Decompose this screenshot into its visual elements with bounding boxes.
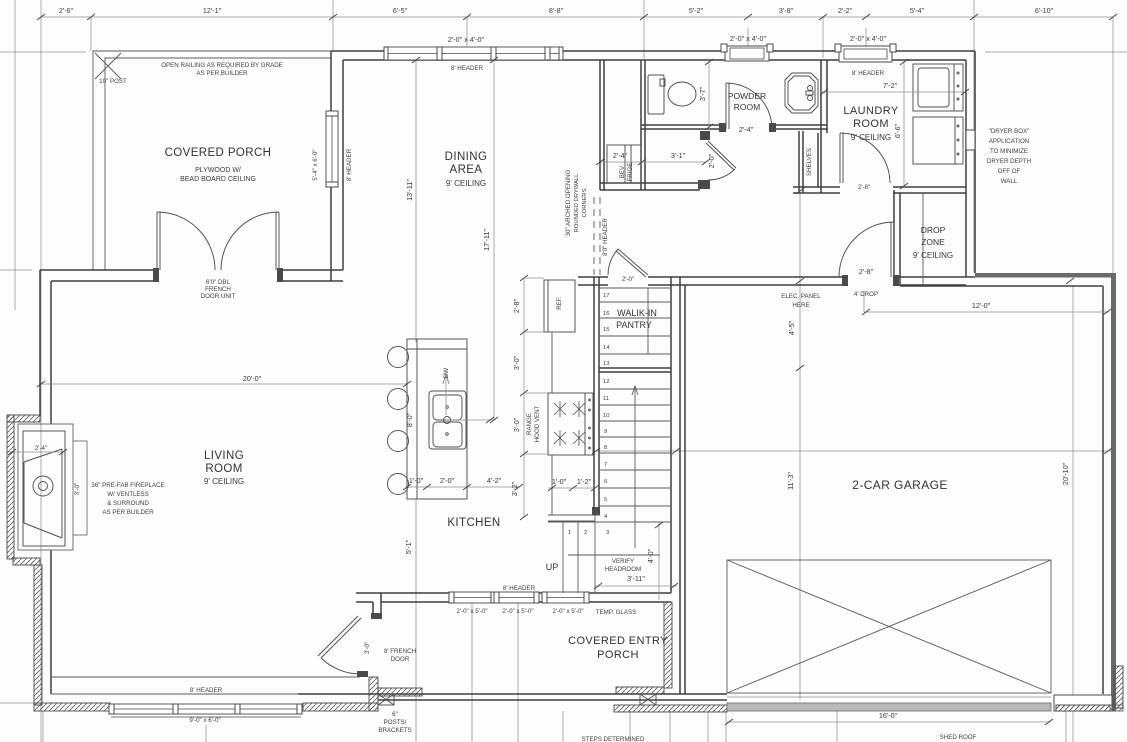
powder 3'-7" xyxy=(708,60,710,129)
svg-text:3'-1": 3'-1" xyxy=(671,151,686,160)
bev dims 2'-4" 3'-1" xyxy=(600,161,706,163)
svg-text:5'-1": 5'-1" xyxy=(404,539,413,554)
living south wall: hatched + window xyxy=(34,703,110,711)
svg-text:2'-0" x 4'-0": 2'-0" x 4'-0" xyxy=(730,34,767,43)
svg-text:5'-2": 5'-2" xyxy=(689,6,704,15)
svg-text:DW: DW xyxy=(443,368,450,378)
window size labels row 2 xyxy=(448,34,887,44)
svg-text:W/ VENTLESS: W/ VENTLESS xyxy=(107,491,149,498)
svg-text:8' HEADER: 8' HEADER xyxy=(346,148,353,181)
laundry north window xyxy=(835,44,896,62)
stair up arrow xyxy=(632,386,638,548)
porch west window 5'-4" x 6'-0" xyxy=(326,111,338,187)
refrigerator xyxy=(544,280,575,332)
svg-text:2'-0": 2'-0" xyxy=(622,276,634,283)
bev fridge nook walls xyxy=(600,60,645,190)
svg-text:3'-11": 3'-11" xyxy=(627,574,645,583)
pantry door xyxy=(608,249,648,277)
svg-text:6": 6" xyxy=(392,711,398,718)
svg-text:12'-0": 12'-0" xyxy=(972,301,991,310)
laundry 6'-6" xyxy=(903,60,905,188)
svg-text:DOOR UNIT: DOOR UNIT xyxy=(201,293,236,300)
svg-text:36" PRE-FAB FIREPLACE: 36" PRE-FAB FIREPLACE xyxy=(91,482,164,489)
svg-text:VERIFY: VERIFY xyxy=(612,558,634,565)
svg-text:14: 14 xyxy=(603,345,610,351)
powder room west wall xyxy=(641,60,645,129)
svg-text:4'-0": 4'-0" xyxy=(646,548,655,563)
porch south wall west segment with french door jambs xyxy=(40,270,343,281)
svg-text:17: 17 xyxy=(603,293,609,299)
garage west wall xyxy=(680,277,685,694)
svg-text:2'-6": 2'-6" xyxy=(59,6,74,15)
svg-text:ROOM: ROOM xyxy=(734,102,760,112)
range xyxy=(548,393,593,455)
living west wall upper xyxy=(40,270,51,424)
kitchen counter return below range xyxy=(548,515,600,521)
svg-text:ROOM: ROOM xyxy=(205,463,242,475)
stair treads upper (pantry) xyxy=(599,288,671,354)
powder room north window xyxy=(721,44,773,61)
svg-text:6'-5": 6'-5" xyxy=(393,6,408,15)
svg-text:TEMP. GLASS: TEMP. GLASS xyxy=(596,609,636,616)
island dims xyxy=(407,486,519,488)
svg-text:2'-0" x 5'-0": 2'-0" x 5'-0" xyxy=(456,608,487,615)
porch/garage south band xyxy=(298,694,727,700)
svg-text:COVERED PORCH: COVERED PORCH xyxy=(165,147,272,159)
svg-text:3'-8": 3'-8" xyxy=(779,6,794,15)
fireplace alcove xyxy=(18,424,87,550)
svg-text:5'-4" x 6'-0": 5'-4" x 6'-0" xyxy=(312,149,319,180)
svg-text:30" ARCHED OPENING: 30" ARCHED OPENING xyxy=(565,169,572,236)
svg-text:2'-4": 2'-4" xyxy=(35,445,47,452)
svg-text:6: 6 xyxy=(604,479,607,485)
svg-text:3'-0": 3'-0" xyxy=(512,417,521,432)
laundry door xyxy=(840,133,890,183)
svg-text:RANGE: RANGE xyxy=(526,413,533,435)
svg-text:PANTRY: PANTRY xyxy=(616,320,652,330)
svg-text:FRIGE: FRIGE xyxy=(627,163,634,182)
svg-text:3'-0": 3'-0" xyxy=(74,483,81,495)
garage inner wall lines xyxy=(900,286,1103,694)
svg-text:LAUNDRY: LAUNDRY xyxy=(843,105,898,117)
svg-text:CORNERS: CORNERS xyxy=(582,188,588,217)
svg-text:2: 2 xyxy=(584,530,587,536)
svg-text:9: 9 xyxy=(604,429,607,435)
svg-text:SHED ROOF: SHED ROOF xyxy=(940,734,977,741)
svg-text:ROOM: ROOM xyxy=(853,118,889,130)
12'-0" xyxy=(864,290,1109,312)
winder steps xyxy=(548,515,660,593)
svg-text:2'-0" x 4'-0": 2'-0" x 4'-0" xyxy=(448,35,485,44)
svg-text:8'0" HEADER: 8'0" HEADER xyxy=(602,218,609,256)
stair treads lower run xyxy=(595,389,671,522)
svg-text:STEPS DETERMINED: STEPS DETERMINED xyxy=(582,736,645,742)
pantry/stair divider wall xyxy=(599,368,671,372)
hall south wall / garage NW wall xyxy=(648,277,975,285)
garage door right jamb xyxy=(1054,695,1112,711)
svg-text:HEADROOM: HEADROOM xyxy=(605,566,641,573)
svg-text:5: 5 xyxy=(604,497,607,503)
stair block east wall xyxy=(670,277,672,593)
svg-text:2'-8": 2'-8" xyxy=(859,267,874,276)
dining west wall (porch east) xyxy=(331,51,343,281)
svg-text:DRYER DEPTH: DRYER DEPTH xyxy=(987,158,1031,165)
svg-text:AS PER BUILDER: AS PER BUILDER xyxy=(196,70,248,77)
powder room south wall xyxy=(641,125,827,129)
17'-11" xyxy=(490,57,498,63)
bev fridge xyxy=(607,145,641,183)
kitchen south windows xyxy=(449,592,589,603)
svg-text:7'-2": 7'-2" xyxy=(883,81,898,90)
svg-text:8'-0": 8'-0" xyxy=(405,412,414,427)
dimension ticks top chain xyxy=(37,14,1117,20)
svg-text:6'0" DBL: 6'0" DBL xyxy=(206,279,231,286)
svg-text:6'-6": 6'-6" xyxy=(893,123,902,138)
svg-text:12: 12 xyxy=(603,379,609,385)
svg-text:8' HEADER: 8' HEADER xyxy=(503,585,536,592)
north exterior wall xyxy=(331,51,975,60)
svg-text:"DRYER BOX": "DRYER BOX" xyxy=(989,128,1030,135)
svg-text:2'-4": 2'-4" xyxy=(739,125,754,134)
stair block west wall xyxy=(594,277,599,515)
svg-text:SHELVES: SHELVES xyxy=(806,148,813,176)
svg-text:8'-8": 8'-8" xyxy=(549,6,564,15)
svg-text:2-CAR GARAGE: 2-CAR GARAGE xyxy=(852,478,948,492)
svg-text:PLYWOOD W/: PLYWOOD W/ xyxy=(195,167,241,174)
covered porch railing outer xyxy=(93,51,331,270)
island sink xyxy=(429,391,466,449)
entry porch east hatched wall xyxy=(664,602,672,688)
bev hall angled door xyxy=(706,141,736,180)
washer xyxy=(913,64,963,111)
laundry 7'-2" xyxy=(822,91,967,93)
svg-text:REF.: REF. xyxy=(556,296,563,310)
svg-text:1'-0": 1'-0" xyxy=(409,476,424,485)
porch corner post X xyxy=(95,53,121,79)
svg-text:WALL: WALL xyxy=(1001,178,1018,185)
svg-text:WALIK-IN: WALIK-IN xyxy=(617,308,657,318)
1'-0" 1'-2" below range xyxy=(548,487,595,489)
kitchen island xyxy=(407,339,467,499)
13'-11" xyxy=(412,57,420,63)
svg-text:8' HEADER: 8' HEADER xyxy=(852,70,885,77)
svg-text:8' HEADER: 8' HEADER xyxy=(190,687,223,694)
svg-text:HOOD VENT: HOOD VENT xyxy=(534,405,541,442)
svg-text:12'-1": 12'-1" xyxy=(203,6,222,15)
garage cross ticks xyxy=(672,448,680,454)
dryer xyxy=(913,117,963,164)
svg-text:BEV: BEV xyxy=(619,165,626,178)
drop zone door xyxy=(839,222,894,277)
living south window 9'-0" x 6'-0" xyxy=(109,704,302,717)
svg-text:6'-10": 6'-10" xyxy=(1035,6,1054,15)
svg-text:ELEC. PANEL: ELEC. PANEL xyxy=(781,293,821,300)
svg-text:2'-2": 2'-2" xyxy=(838,6,853,15)
svg-text:APPLICATION: APPLICATION xyxy=(989,138,1029,145)
bar stools xyxy=(379,342,409,499)
svg-text:POWDER: POWDER xyxy=(728,91,766,101)
svg-text:2'-4": 2'-4" xyxy=(613,151,628,160)
svg-text:9'-0" x 6'-0": 9'-0" x 6'-0" xyxy=(189,717,220,724)
svg-text:BEAD BOARD CEILING: BEAD BOARD CEILING xyxy=(180,176,256,183)
svg-text:4' DROP: 4' DROP xyxy=(854,291,878,298)
fireplace dim 2'-4" xyxy=(9,451,66,453)
svg-text:11: 11 xyxy=(603,396,609,402)
svg-text:& SURROUND: & SURROUND xyxy=(107,500,149,507)
entry porch west hatched wall xyxy=(369,677,378,711)
svg-text:TO MINIMIZE: TO MINIMIZE xyxy=(990,148,1028,155)
svg-text:2'-0": 2'-0" xyxy=(440,476,455,485)
drop zone divider xyxy=(922,193,924,285)
svg-text:4'-2": 4'-2" xyxy=(487,476,502,485)
svg-text:PORCH: PORCH xyxy=(597,649,639,661)
svg-text:LIVING: LIVING xyxy=(204,450,244,462)
svg-text:BRACKETS: BRACKETS xyxy=(378,727,411,734)
svg-text:3'-2": 3'-2" xyxy=(510,481,519,496)
powder/laundry shared wall xyxy=(821,60,827,133)
drop zone west wall xyxy=(894,190,900,285)
svg-text:DINING: DINING xyxy=(445,151,488,163)
kitchen counter edges xyxy=(544,280,552,515)
16'-0" garage door xyxy=(727,721,1051,723)
svg-text:9' CEILING: 9' CEILING xyxy=(913,251,953,260)
svg-text:5'-4": 5'-4" xyxy=(910,6,925,15)
svg-text:3: 3 xyxy=(606,530,609,536)
svg-text:10" POST: 10" POST xyxy=(99,78,127,85)
4'-5" 11'-3" vertical at x=800 xyxy=(796,188,804,194)
svg-text:11'-3": 11'-3" xyxy=(786,472,795,490)
svg-text:AREA: AREA xyxy=(450,164,483,176)
svg-text:OPEN RAILING AS REQUIRED BY GR: OPEN RAILING AS REQUIRED BY GRADE xyxy=(161,62,283,69)
svg-text:20'-0": 20'-0" xyxy=(243,374,262,383)
bathtub xyxy=(785,73,818,113)
svg-text:2'-0" x 5'-0": 2'-0" x 5'-0" xyxy=(502,608,533,615)
entry porch posts xyxy=(378,694,656,705)
svg-text:16'-0": 16'-0" xyxy=(879,711,898,720)
garage east wall thick xyxy=(1111,273,1116,711)
svg-text:POSTS/: POSTS/ xyxy=(384,719,407,726)
svg-text:8' HEADER: 8' HEADER xyxy=(451,65,484,72)
svg-text:1'-2": 1'-2" xyxy=(577,477,592,486)
svg-text:20'-10": 20'-10" xyxy=(1061,462,1070,485)
svg-text:13: 13 xyxy=(603,361,609,367)
garage north wall thick xyxy=(975,273,1116,278)
svg-text:3'-0": 3'-0" xyxy=(512,355,521,370)
top dimension chain line xyxy=(41,16,1113,18)
laundry south wall xyxy=(793,187,966,193)
garage slab X box xyxy=(727,560,1051,693)
svg-text:2'-8": 2'-8" xyxy=(858,184,870,191)
dimension labels top chain xyxy=(59,6,1054,15)
svg-text:DOOR: DOOR xyxy=(391,656,410,663)
svg-text:2'-8": 2'-8" xyxy=(512,298,521,313)
sink center dim lines xyxy=(446,376,494,420)
shelves closet walls xyxy=(799,131,821,193)
garage door xyxy=(727,703,1051,711)
french door unit porch (double) xyxy=(157,212,279,270)
svg-text:17'-11": 17'-11" xyxy=(482,229,491,251)
svg-text:ZONE: ZONE xyxy=(921,237,945,247)
svg-text:HERE: HERE xyxy=(792,302,809,309)
stair numbers xyxy=(568,293,610,536)
dryer box recess on east wall xyxy=(966,130,975,150)
svg-text:1: 1 xyxy=(568,530,571,536)
svg-text:OFF OF: OFF OF xyxy=(998,168,1021,175)
svg-text:8: 8 xyxy=(604,445,607,451)
svg-text:AS PER BUILDER: AS PER BUILDER xyxy=(102,509,154,516)
svg-text:9' CEILING: 9' CEILING xyxy=(446,179,486,188)
svg-text:COVERED ENTRY: COVERED ENTRY xyxy=(568,635,668,647)
svg-text:9' CEILING: 9' CEILING xyxy=(851,133,891,142)
kitchen east bracket dims xyxy=(523,278,525,517)
french door living SE xyxy=(318,616,361,674)
svg-text:KITCHEN: KITCHEN xyxy=(447,517,500,529)
dining east arched opening dashed xyxy=(594,197,600,275)
svg-text:UP: UP xyxy=(546,562,559,572)
svg-text:ROUNDED DRYWALL: ROUNDED DRYWALL xyxy=(574,173,580,232)
svg-text:9' CEILING: 9' CEILING xyxy=(204,477,244,486)
svg-text:15: 15 xyxy=(603,327,609,333)
hall south wall (bev area) xyxy=(600,183,700,190)
svg-text:2'-0": 2'-0" xyxy=(707,153,716,168)
kitchen south wall xyxy=(381,593,671,602)
svg-text:8' FRENCH: 8' FRENCH xyxy=(384,648,416,655)
toilet xyxy=(648,75,696,114)
svg-text:4'-5": 4'-5" xyxy=(787,320,796,335)
svg-text:13'-11": 13'-11" xyxy=(405,179,414,201)
svg-text:FRENCH: FRENCH xyxy=(205,286,231,293)
svg-text:16: 16 xyxy=(603,311,609,317)
svg-text:2'-0" x 4'-0": 2'-0" x 4'-0" xyxy=(850,34,887,43)
fireplace bump hatched walls xyxy=(7,415,40,422)
svg-text:7: 7 xyxy=(604,462,607,468)
pantry north wall stub xyxy=(578,277,608,285)
svg-text:3'-7": 3'-7" xyxy=(698,86,707,101)
svg-text:10: 10 xyxy=(603,413,609,419)
svg-text:1'-0": 1'-0" xyxy=(552,477,567,486)
svg-text:2'-0" x 5'-0": 2'-0" x 5'-0" xyxy=(552,608,583,615)
east exterior wall (laundry/drop zone) xyxy=(966,51,975,277)
living south header lines xyxy=(51,677,360,694)
dining north window band xyxy=(384,47,563,60)
garage east hatched return xyxy=(1114,666,1123,708)
french door SE corner walls xyxy=(356,593,381,617)
svg-text:DROP: DROP xyxy=(921,225,946,235)
living west wall inner face lower xyxy=(50,550,52,694)
powder room door xyxy=(726,83,772,129)
svg-text:3'-0": 3'-0" xyxy=(364,642,371,654)
verify headroom dims xyxy=(595,522,677,600)
20'-0" living dim xyxy=(41,383,407,385)
